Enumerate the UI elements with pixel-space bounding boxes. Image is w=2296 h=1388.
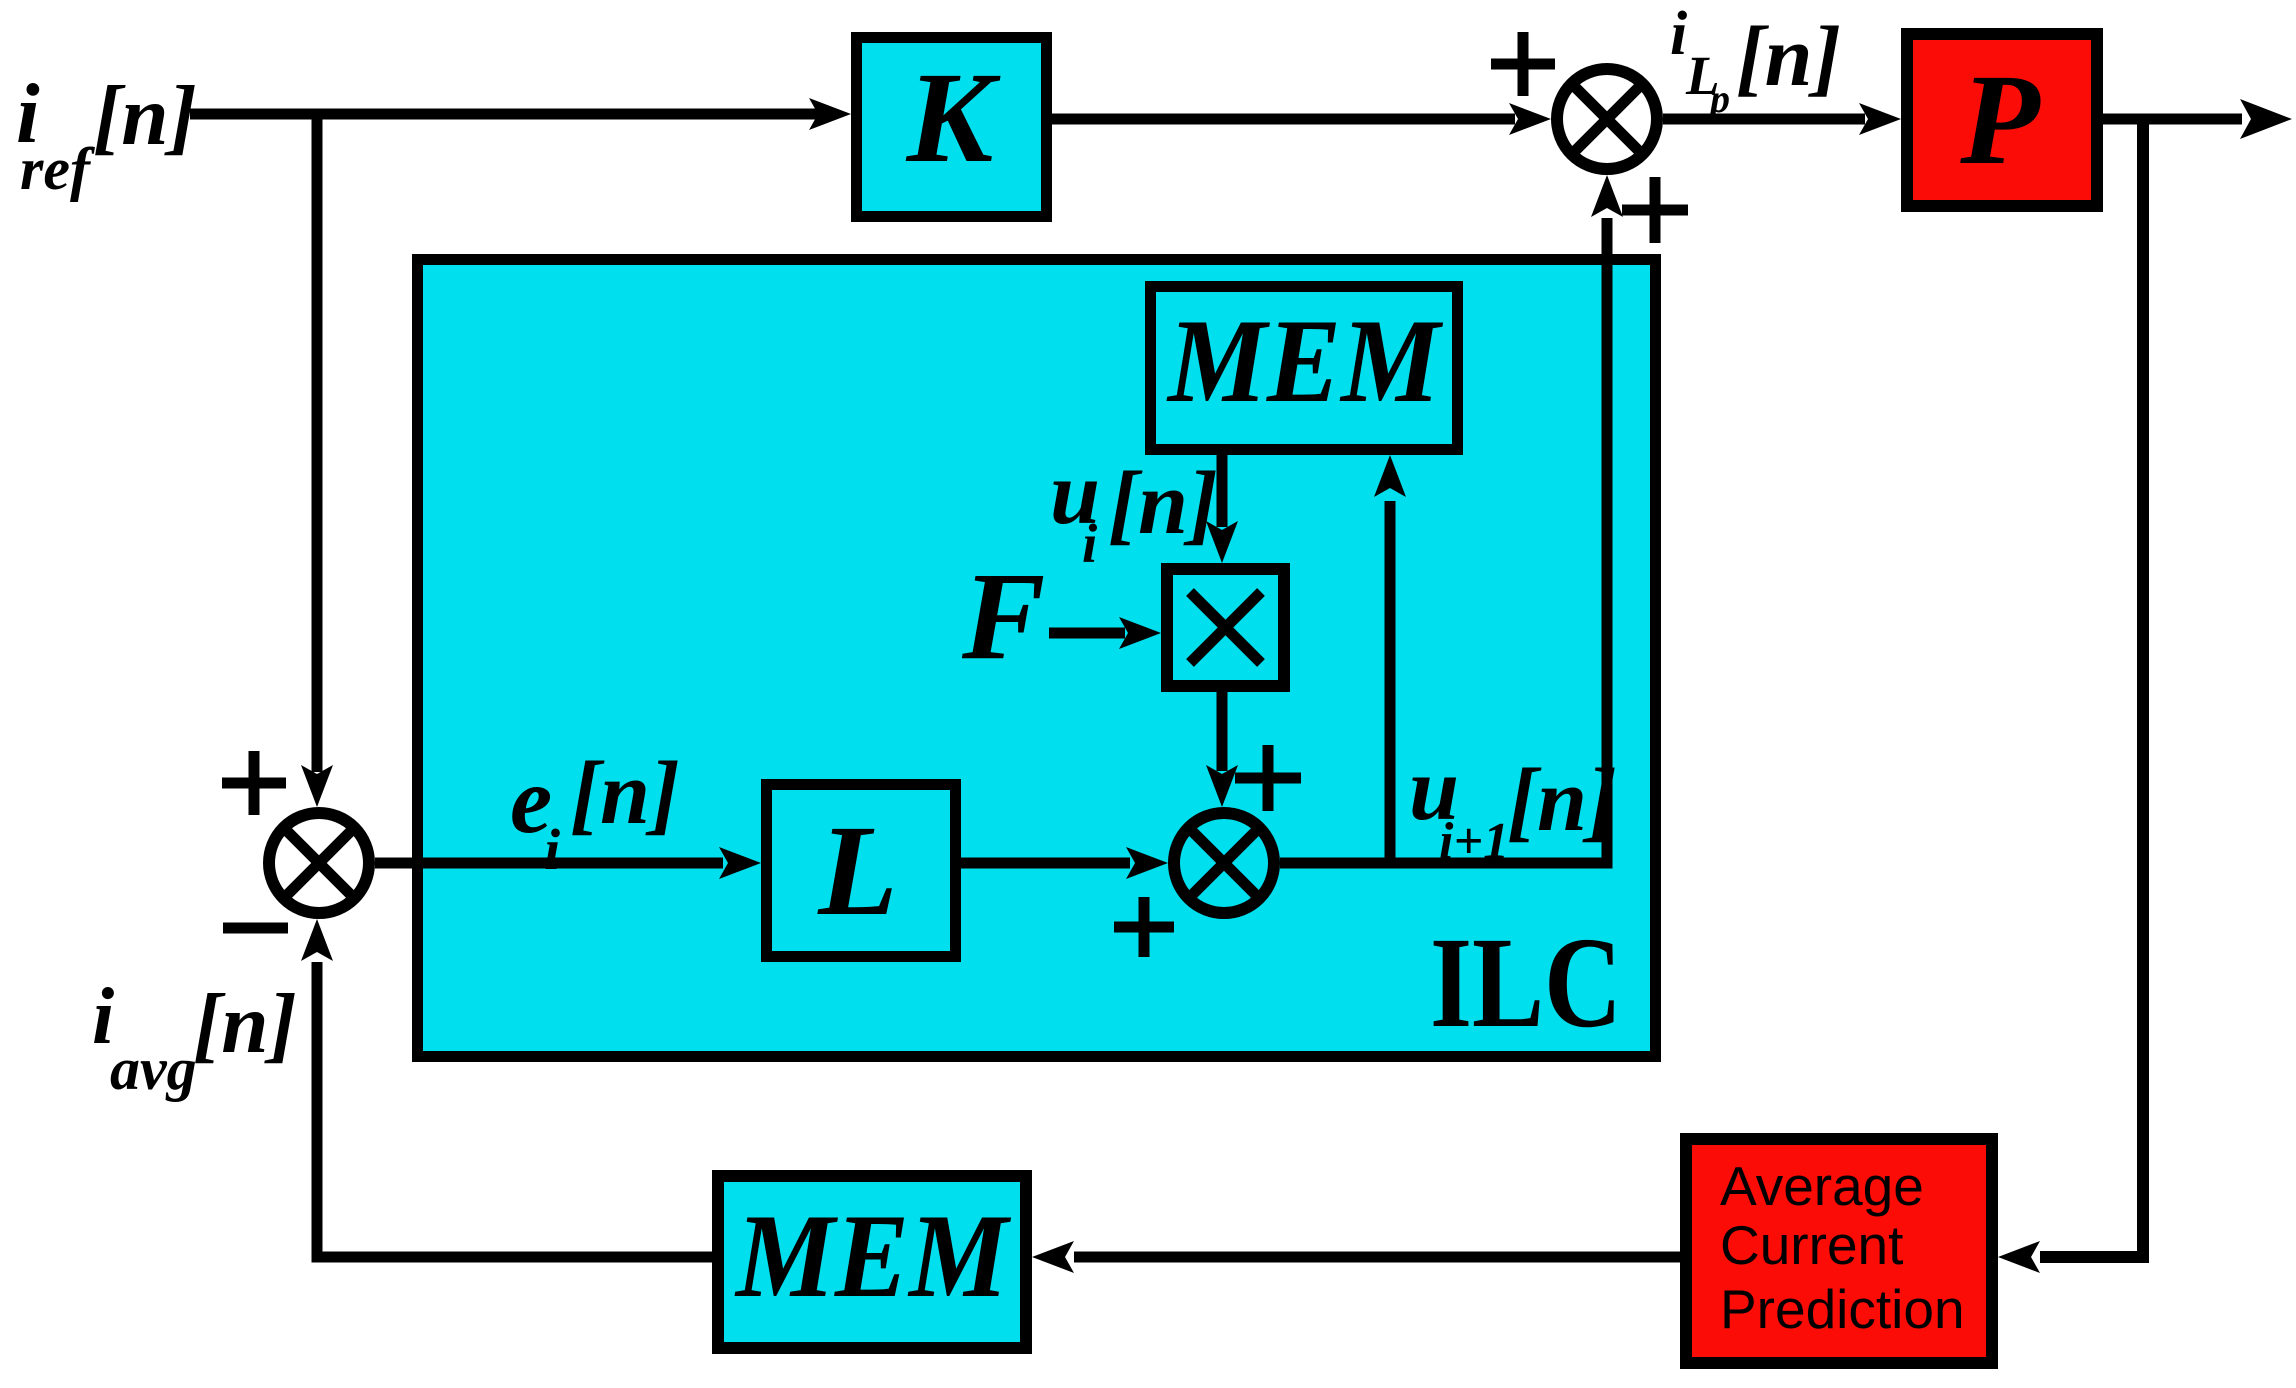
svg-text:Current: Current [1720,1214,1903,1276]
plus sign S2 input i_ref [222,751,286,815]
svg-text:[n]: [n] [93,69,197,163]
label ILC [1430,911,1622,1055]
wire feedback from P output down to Average Current Prediction [1998,119,2143,1273]
minus sign S2 input i_avg [223,923,288,934]
svg-text:MEM: MEM [734,1189,1012,1322]
wire K to summing junction S1 [1052,103,1551,135]
wire i_ref input to K [190,98,851,130]
multiplier X box [1167,569,1284,686]
wire S3 output up to S1 [1280,175,1623,863]
box ILC (cyan region) [418,260,1656,1057]
plus sign S1 input from K [1491,32,1555,96]
block P [1907,34,2097,206]
block MEM1 [1151,287,1458,450]
block K [857,38,1047,217]
svg-text:[n]: [n] [1507,751,1617,850]
svg-text:i: i [1670,0,1687,68]
svg-text:i+1: i+1 [1439,813,1509,870]
node e_i[n] label [510,744,680,882]
node u_i+1[n] label [1409,740,1617,870]
wire MEM2 to summing junction S2 [301,919,712,1257]
svg-text:i: i [1082,513,1098,574]
block MEM2 [718,1176,1026,1348]
svg-text:ILC: ILC [1430,911,1622,1055]
svg-text:Prediction: Prediction [1720,1278,1965,1340]
wire MEM1 to multiplier (u_i) [1206,455,1238,563]
wire multiplier to S3 [1206,692,1238,807]
svg-text:L: L [817,799,897,943]
svg-text:F: F [961,548,1045,686]
node F label [961,548,1045,686]
block Average Current Prediction [1686,1139,1992,1363]
node i_ref[n] label [16,67,197,202]
wire ACP to MEM2 [1032,1241,1680,1273]
wire u_i+1 branch up to MEM1 [1374,455,1406,863]
node i_avg[n] label [92,973,297,1102]
block L [767,785,956,957]
wire branch i_ref down to summing junction S2 [301,114,333,807]
wire P output [2103,99,2292,139]
svg-text:[n]: [n] [193,977,297,1071]
svg-text:avg: avg [110,1036,197,1102]
svg-text:MEM: MEM [1166,294,1444,427]
svg-text:[n]: [n] [570,744,680,843]
svg-text:[n]: [n] [1108,454,1218,553]
svg-text:ref: ref [20,136,95,202]
wire S2 to L (e_i) [375,847,761,879]
plus sign S3 input from multiplier [1235,745,1301,811]
wire L to inner summing junction S3 [961,847,1168,879]
wire S1 to P [1663,103,1901,135]
svg-text:[n]: [n] [1736,8,1841,104]
plus sign S1 input from ILC [1622,177,1688,243]
node u_i[n] label [1050,444,1218,574]
svg-text:Average: Average [1720,1155,1924,1217]
svg-text:i: i [544,817,560,882]
plus sign S3 input from L [1114,897,1174,957]
svg-text:P: P [1959,48,2041,192]
node i_Lp[n] label [1670,0,1841,121]
summing junction S3 [1174,813,1274,913]
svg-text:K: K [906,46,1001,190]
wire F to multiplier [1049,617,1161,649]
summing junction S2 [269,813,369,913]
summing junction S1 [1557,69,1657,169]
